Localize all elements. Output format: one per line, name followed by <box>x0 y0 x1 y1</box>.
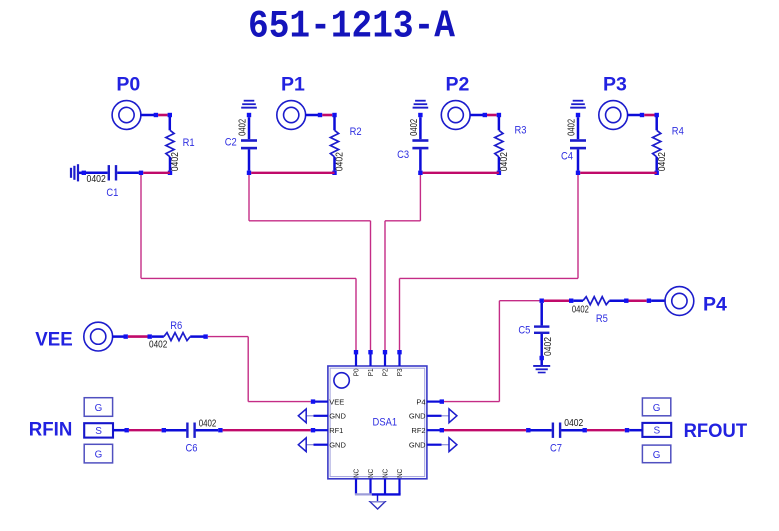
svg-text:C3: C3 <box>397 149 409 161</box>
svg-text:NC: NC <box>381 468 390 478</box>
ground of C3 <box>415 100 426 102</box>
capacitor C4 <box>576 113 580 117</box>
svg-text:R1: R1 <box>183 137 195 149</box>
svg-text:G: G <box>95 403 103 414</box>
wire net P2 routing to IC <box>419 175 421 221</box>
svg-text:C4: C4 <box>561 150 573 162</box>
ground of C2 <box>244 100 255 102</box>
svg-text:NC: NC <box>352 468 361 478</box>
svg-text:C2: C2 <box>225 137 237 149</box>
svg-text:0402: 0402 <box>87 174 107 185</box>
svg-text:S: S <box>653 426 660 437</box>
svg-text:RF1: RF1 <box>329 426 343 435</box>
svg-text:C7: C7 <box>550 443 562 455</box>
ground of C1 <box>77 164 79 181</box>
svg-text:0402: 0402 <box>499 152 510 172</box>
svg-text:VEE: VEE <box>329 397 344 406</box>
wire C1 to node <box>117 172 139 175</box>
svg-text:DSA1: DSA1 <box>373 417 398 429</box>
svg-text:0402: 0402 <box>238 119 249 136</box>
node C4/R4 <box>576 171 580 175</box>
svg-text:0402: 0402 <box>564 418 583 429</box>
svg-text:P4: P4 <box>703 294 727 316</box>
svg-text:0402: 0402 <box>409 119 420 136</box>
connector VEE <box>84 322 113 351</box>
svg-text:G: G <box>95 450 103 461</box>
svg-text:G: G <box>653 450 661 461</box>
capacitor C2 <box>247 113 251 117</box>
wire NC bus <box>355 493 372 495</box>
pin GND of DSA1 (left lower) <box>314 444 328 446</box>
svg-text:RFIN: RFIN <box>29 419 73 441</box>
svg-text:G: G <box>653 403 661 414</box>
svg-text:0402: 0402 <box>543 337 554 356</box>
svg-text:0402: 0402 <box>149 339 168 350</box>
svg-text:0402: 0402 <box>657 152 668 172</box>
svg-text:P3: P3 <box>395 368 404 376</box>
svg-text:P3: P3 <box>603 74 627 96</box>
resistor R4 <box>653 130 661 157</box>
op-amp U1 DSA1 body <box>328 366 427 479</box>
svg-text:P0: P0 <box>352 368 361 376</box>
wire RF2 to C7 <box>444 429 526 431</box>
svg-text:S: S <box>95 426 102 437</box>
connector P1 <box>277 101 306 130</box>
connector P3 <box>599 101 628 130</box>
node C5/R5 <box>540 299 544 303</box>
svg-text:0402: 0402 <box>335 152 346 172</box>
ground of C5 <box>533 365 550 367</box>
pin GND of DSA1 (left upper) <box>314 415 328 417</box>
ground flag below DSA1 <box>370 502 385 509</box>
svg-text:0402: 0402 <box>572 305 589 316</box>
connector P0 <box>112 101 141 130</box>
pin VEE of DSA1 <box>314 401 328 403</box>
pin 1 indicator <box>334 373 349 388</box>
wire VEE to R6 <box>112 335 126 338</box>
capacitor C5 <box>540 303 543 326</box>
pin NC of DSA1 (bottom) <box>384 479 386 495</box>
wire net P0 routing to IC <box>140 175 142 278</box>
pad S of RFOUT <box>642 423 671 437</box>
pin NC of DSA1 (bottom) <box>355 479 357 495</box>
wire P0 to R1 top <box>140 114 156 117</box>
pin RF2 of DSA1 <box>427 429 441 431</box>
svg-text:651-1213-A: 651-1213-A <box>248 5 456 49</box>
resistor R3 <box>495 130 503 157</box>
svg-text:VEE: VEE <box>35 329 73 351</box>
svg-text:GND: GND <box>409 412 426 421</box>
svg-text:GND: GND <box>329 440 346 449</box>
pad G bottom of RFOUT <box>642 445 670 463</box>
resistor R6 <box>164 333 190 341</box>
pin P0 of DSA1 (top) <box>355 354 357 366</box>
resistor R5 <box>583 297 609 305</box>
pin GND of DSA1 (right upper) <box>427 415 442 417</box>
svg-text:C1: C1 <box>106 187 118 199</box>
svg-text:P4: P4 <box>416 397 425 406</box>
svg-text:RFOUT: RFOUT <box>684 420 748 442</box>
wire net VEE routing to IC <box>208 336 248 338</box>
wire C6 to RF1 <box>196 429 219 432</box>
svg-text:NC: NC <box>366 468 375 478</box>
svg-text:P0: P0 <box>116 74 140 96</box>
svg-text:R5: R5 <box>596 313 608 325</box>
pad S of RFIN <box>84 423 113 437</box>
resistor R1 <box>166 130 174 157</box>
node C2/R2 <box>247 171 251 175</box>
svg-text:R4: R4 <box>672 125 684 137</box>
pin P1 of DSA1 (top) <box>369 354 371 366</box>
svg-text:P2: P2 <box>445 74 469 96</box>
svg-text:RF2: RF2 <box>411 426 425 435</box>
svg-text:P1: P1 <box>366 368 375 376</box>
pad G bottom of RFIN <box>84 444 112 463</box>
connector P4 <box>665 287 694 316</box>
node C1/R1 <box>139 171 143 175</box>
wire P3 to R4 top <box>627 114 642 117</box>
wire P2 to R3 top <box>470 114 485 117</box>
svg-text:R6: R6 <box>170 320 182 332</box>
resistor R2 <box>330 130 338 157</box>
svg-text:P2: P2 <box>381 368 390 376</box>
svg-text:R3: R3 <box>515 125 527 137</box>
pin P2 of DSA1 (top) <box>384 354 386 366</box>
svg-text:GND: GND <box>329 412 346 421</box>
pin P3 of DSA1 (top) <box>398 354 400 366</box>
svg-text:0402: 0402 <box>567 119 578 136</box>
ground of C4 <box>573 100 584 102</box>
capacitor C7 <box>552 423 554 438</box>
wire net P4 routing from IC <box>444 401 499 403</box>
capacitor C3 <box>418 113 422 117</box>
wire C7 to RFOUT <box>561 429 582 432</box>
capacitor C1 <box>79 172 84 175</box>
pin NC of DSA1 (bottom) <box>369 479 371 495</box>
wire RFIN to C6 <box>113 429 127 432</box>
wire net P3 routing to IC <box>577 175 579 278</box>
svg-text:C6: C6 <box>186 443 198 455</box>
svg-text:GND: GND <box>409 440 426 449</box>
pad G top of RFIN <box>84 398 112 417</box>
pin GND of DSA1 (right lower) <box>427 444 442 446</box>
svg-text:0402: 0402 <box>199 418 217 429</box>
svg-text:P1: P1 <box>281 74 305 96</box>
pin RF1 of DSA1 <box>314 429 328 431</box>
pin NC of DSA1 (bottom) <box>398 479 400 495</box>
wire net P1 routing to IC <box>248 175 250 221</box>
capacitor C6 <box>186 423 188 438</box>
node C3/R3 <box>418 171 422 175</box>
pin P4 of DSA1 <box>427 401 441 403</box>
svg-text:R2: R2 <box>350 126 362 138</box>
svg-text:NC: NC <box>395 468 404 478</box>
connector P2 <box>441 101 470 130</box>
svg-text:C5: C5 <box>518 325 530 337</box>
wire P1 to R2 top <box>305 114 320 117</box>
svg-text:0402: 0402 <box>170 152 181 172</box>
pad G top of RFOUT <box>642 398 670 416</box>
